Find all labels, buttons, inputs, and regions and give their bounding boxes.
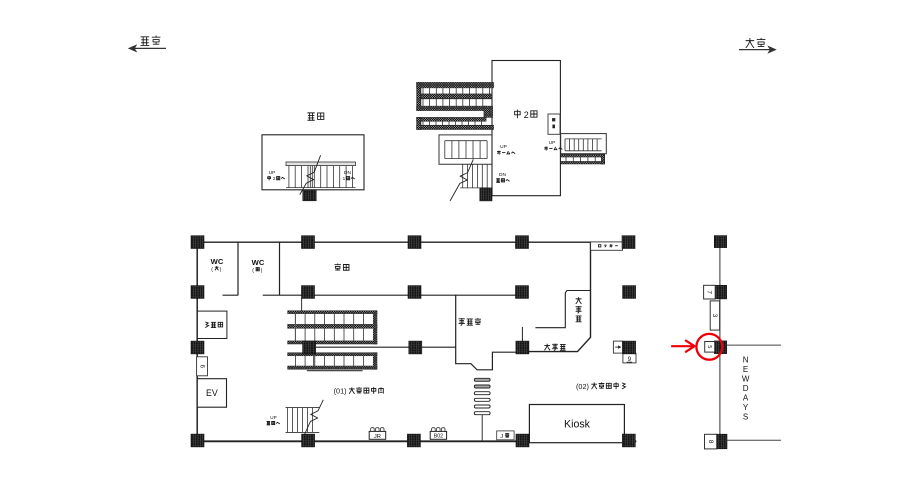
- svg-text:B02: B02: [434, 434, 443, 440]
- box 8: [705, 434, 717, 449]
- WC divider walls: [238, 243, 280, 296]
- row2 wall segments: [223, 294, 517, 296]
- J-annai box: [497, 431, 514, 440]
- Kiosk box: [529, 405, 624, 443]
- svg-text:EV: EV: [206, 388, 218, 398]
- svg-text:S: S: [743, 412, 748, 421]
- row3 wall: [314, 346, 455, 348]
- box 7: [704, 285, 716, 299]
- stair break arrow: [450, 159, 473, 201]
- label naka-2-kai: [515, 110, 537, 120]
- svg-text:WC: WC: [211, 257, 224, 266]
- platform edge line: [719, 248, 721, 449]
- block2 top band: [417, 117, 487, 121]
- center stair right cap: [373, 311, 377, 344]
- JR box: [369, 428, 386, 440]
- odoriba room box: [262, 135, 364, 190]
- mezzanine room: [492, 61, 560, 196]
- left stair band C: [417, 106, 487, 111]
- svg-text:W: W: [742, 374, 750, 383]
- stair break arrow: [300, 155, 321, 194]
- svg-text:2: 2: [524, 110, 529, 120]
- svg-text:UP: UP: [270, 415, 276, 420]
- label odoriba: [307, 113, 323, 120]
- arrow right to Omiya: [739, 49, 773, 51]
- label warehouse souko: [334, 263, 349, 270]
- right stair treads: [565, 139, 597, 151]
- red highlight circle: [696, 334, 722, 360]
- svg-text:Kiosk: Kiosk: [564, 419, 591, 431]
- label ticket machines vertical: [576, 297, 582, 322]
- right stair cap: [601, 154, 604, 164]
- ad marker arrow box + 9: [613, 341, 622, 353]
- svg-text:): ): [261, 268, 263, 274]
- svg-text:UP: UP: [549, 140, 556, 146]
- svg-text:UP: UP: [500, 144, 507, 150]
- svg-text:(: (: [211, 267, 213, 273]
- multi-function toilet box: [197, 311, 227, 338]
- locker box: [591, 242, 623, 250]
- short wall tick: [521, 327, 523, 341]
- wall pillar2 to stair: [301, 298, 303, 311]
- svg-text:5: 5: [706, 345, 712, 348]
- right stair lower treads: [566, 157, 595, 162]
- center stair upper band bottom: [288, 341, 377, 344]
- svg-text:WC: WC: [252, 258, 265, 267]
- arrow left to Shinjuku: [131, 47, 166, 49]
- box 3: [710, 301, 719, 330]
- strip pillars: [714, 236, 726, 248]
- svg-text:E: E: [743, 365, 748, 374]
- label Shinjuku direction: [141, 36, 161, 46]
- svg-text:J: J: [500, 434, 503, 440]
- stair treads in odoriba: [289, 166, 353, 188]
- left stair band A: [417, 82, 494, 88]
- svg-text:7: 7: [706, 290, 713, 294]
- svg-text:6: 6: [198, 365, 205, 369]
- svg-text:8: 8: [707, 440, 714, 444]
- svg-text:N: N: [743, 355, 749, 364]
- treads: [295, 328, 363, 341]
- office walls: [456, 295, 516, 370]
- label office jimushitsu: [459, 318, 481, 325]
- bottom-left stair: [286, 408, 320, 433]
- B02 box: [430, 428, 446, 440]
- label ticket machines horizontal: [544, 344, 565, 351]
- treads row3: [423, 121, 482, 125]
- handrail line below: [307, 370, 363, 372]
- hatched stair base: [303, 190, 316, 201]
- hatched stair base: [480, 188, 492, 201]
- EV box: [197, 379, 226, 408]
- turn block: [484, 106, 493, 117]
- treads: [295, 356, 363, 366]
- center stair mid band: [288, 324, 377, 328]
- small locker box on mezzanine wall: [548, 114, 560, 134]
- left stair band B: [421, 94, 492, 99]
- ticket machine alcove: [535, 291, 590, 328]
- box 6: [197, 357, 208, 376]
- svg-text:2: 2: [273, 176, 276, 181]
- svg-text:3: 3: [711, 314, 718, 318]
- red arrow: [672, 345, 693, 347]
- svg-text:D: D: [743, 384, 749, 393]
- svg-text:A: A: [743, 393, 749, 402]
- right stair lower band top: [561, 154, 605, 157]
- svg-text:(: (: [252, 268, 254, 274]
- svg-text:(02): (02): [576, 382, 589, 391]
- treads row1: [423, 88, 489, 94]
- center stair lower right cap: [373, 353, 377, 370]
- pillars grid: [191, 236, 204, 249]
- svg-text:DN: DN: [499, 172, 506, 178]
- svg-text:): ): [220, 267, 222, 273]
- circled box 5: [705, 342, 715, 353]
- svg-text:Y: Y: [743, 403, 749, 412]
- landing flight rails: [445, 141, 487, 159]
- landing treads: [445, 141, 487, 159]
- treads: [295, 314, 363, 325]
- label (02) outside gates: [576, 382, 626, 391]
- landing outline: [439, 135, 492, 164]
- stair break arrow: [303, 400, 323, 437]
- left stair hatched left cap: [417, 82, 421, 110]
- label Omiya direction: [746, 38, 766, 48]
- block2 bottom band: [417, 125, 494, 129]
- center stair lower band top: [288, 353, 377, 356]
- stair top bar: [286, 162, 356, 166]
- right wall with chamfer: [528, 243, 591, 352]
- flight divider lower: [313, 356, 315, 366]
- flight divider upper: [294, 314, 296, 341]
- main building left wall: [196, 242, 198, 441]
- svg-text:(01): (01): [334, 387, 347, 396]
- right stair lower band bottom: [561, 162, 605, 164]
- gate fence line: [481, 415, 483, 442]
- main building bottom wall: [191, 440, 636, 442]
- center stair lower band bottom: [288, 366, 377, 369]
- svg-text:1: 1: [343, 176, 346, 181]
- svg-text:JR: JR: [374, 434, 381, 440]
- down flight treads: [463, 164, 488, 188]
- ticket gate bars: [474, 378, 490, 381]
- right stair outline: [561, 134, 607, 154]
- lines to right: [727, 345, 781, 440]
- label (01) inside gates: [334, 387, 384, 396]
- main building top wall: [191, 241, 635, 243]
- block2 left cap: [417, 117, 421, 129]
- center stair upper band top: [288, 311, 377, 314]
- treads row2: [423, 99, 483, 106]
